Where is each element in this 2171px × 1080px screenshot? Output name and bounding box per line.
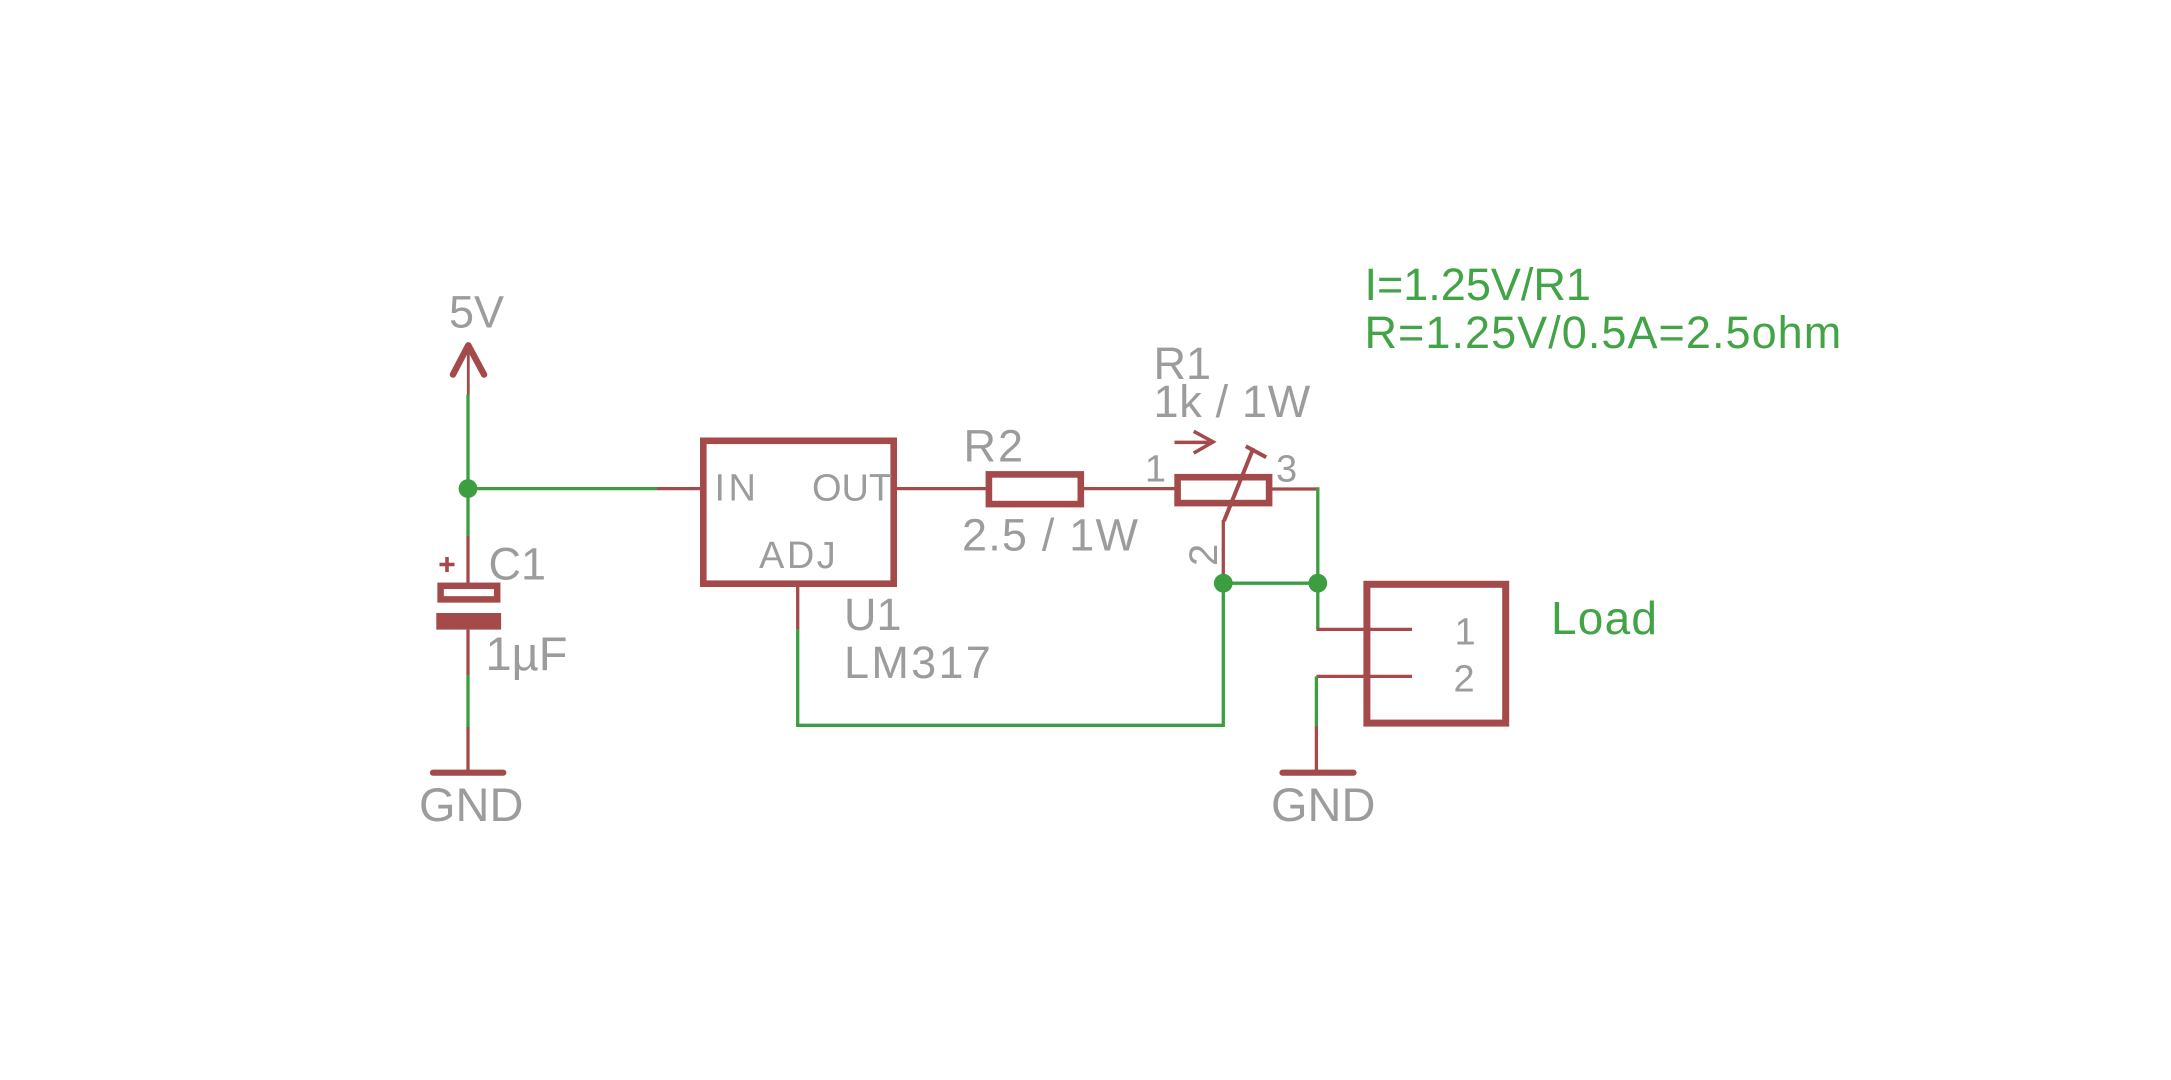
pin stub R1 pin3 <box>1269 487 1318 490</box>
svg-text:2.5 / 1W: 2.5 / 1W <box>962 510 1139 561</box>
pin stub R1 pin2 <box>1222 520 1225 583</box>
pin stub U1 IN <box>657 487 702 490</box>
svg-text:3: 3 <box>1276 449 1297 491</box>
svg-text:5V: 5V <box>449 287 504 338</box>
capacitor C1 bottom plate <box>436 613 501 630</box>
svg-text:1k / 1W: 1k / 1W <box>1154 376 1311 427</box>
potentiometer R1 box <box>1178 477 1270 503</box>
svg-text:1µF: 1µF <box>486 627 568 680</box>
svg-text:Load: Load <box>1551 592 1658 644</box>
potentiometer R1 wiper <box>1224 446 1266 521</box>
pin stub U1 OUT to R2 <box>897 487 987 490</box>
potentiometer R1 direction arrow <box>1175 431 1214 453</box>
svg-text:R=1.25V/0.5A=2.5ohm: R=1.25V/0.5A=2.5ohm <box>1365 307 1843 358</box>
wire 5V to junction A <box>466 395 469 489</box>
wire C1 to GND <box>466 675 469 727</box>
svg-text:IN: IN <box>715 468 760 510</box>
load connector pin 1 <box>1316 628 1412 631</box>
svg-text:LM317: LM317 <box>844 637 993 688</box>
resistor R2 box <box>989 474 1081 504</box>
ground symbol left <box>433 770 503 776</box>
capacitor C1 plus sign <box>440 557 455 572</box>
svg-text:ADJ: ADJ <box>759 535 838 577</box>
svg-text:R2: R2 <box>964 421 1026 472</box>
wire junction B down and left to ADJ <box>798 583 1224 725</box>
svg-text:1: 1 <box>1145 449 1166 491</box>
supply symbol 5V arrow <box>453 345 484 394</box>
svg-text:GND: GND <box>419 778 523 831</box>
junction B dot <box>1214 574 1233 593</box>
pin stub GND right <box>1315 726 1318 770</box>
svg-text:I=1.25V/R1: I=1.25V/R1 <box>1365 259 1591 310</box>
svg-text:GND: GND <box>1271 778 1375 831</box>
svg-text:C1: C1 <box>489 539 547 590</box>
pin stub U1 ADJ <box>796 584 799 629</box>
wire load pin2 to GND <box>1315 676 1318 726</box>
wire R1 pin3 down to load pin1 <box>1316 487 1319 629</box>
op-amp regulator U1 box <box>703 441 893 584</box>
wire junction A down to C1 <box>466 489 469 536</box>
wire junction A to IN pin <box>468 487 657 490</box>
pin stub GND left <box>466 727 469 770</box>
pin stub C1 plus <box>466 536 469 584</box>
pin stub C1 minus <box>466 630 469 675</box>
svg-text:2: 2 <box>1182 544 1226 566</box>
svg-text:1: 1 <box>1455 612 1476 654</box>
capacitor C1 top plate <box>441 586 498 600</box>
junction C dot <box>1308 574 1327 593</box>
junction A dot <box>459 479 478 498</box>
wire junction B to junction C <box>1223 582 1318 585</box>
load connector pin 2 <box>1316 675 1412 678</box>
load connector box <box>1367 584 1506 723</box>
svg-text:OUT: OUT <box>812 468 892 510</box>
pin stub R2 right to R1 pin1 <box>1084 487 1175 490</box>
svg-text:U1: U1 <box>844 589 902 640</box>
svg-text:2: 2 <box>1454 659 1475 701</box>
ground symbol right <box>1283 770 1354 776</box>
